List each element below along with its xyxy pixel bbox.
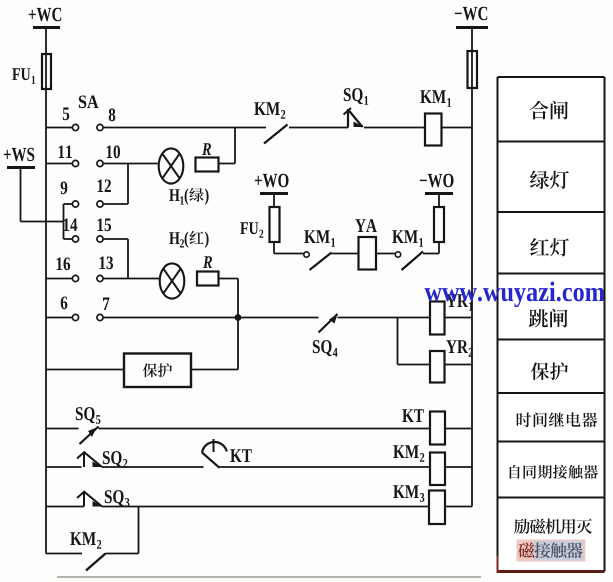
legend row: field suppression line 1: [514, 519, 592, 534]
limit switch SQ5: [76, 407, 101, 444]
time-delay contact KT: [202, 439, 252, 468]
legend row highlight (watermark box): [517, 540, 586, 562]
SA contact 13: [97, 256, 113, 281]
wire protection box to trip row: [191, 369, 238, 371]
wire left bus: [45, 28, 47, 554]
resistor R (green lamp): [196, 143, 219, 171]
wire SQ1 to KM1 coil: [364, 127, 425, 129]
wire bus to SQ3: [46, 506, 84, 508]
legend row: protection: [531, 362, 568, 380]
coil YA: [355, 219, 377, 269]
SA contact 8: [97, 108, 115, 130]
wire bus to protection box: [46, 369, 124, 371]
coil KM1: [420, 90, 451, 145]
legend table frame: [498, 77, 605, 572]
SA contact 5: [63, 108, 79, 131]
SA contact 6: [61, 296, 79, 320]
fuse (right of YA): [434, 194, 444, 254]
wire YR2 coil to right bus: [445, 364, 473, 366]
SA contact 5-8 wire stub: [46, 127, 73, 129]
coil YR1: [430, 294, 473, 334]
SA contact 11-10 wire stub: [46, 163, 73, 165]
contact KM1 (left, NO): [304, 230, 335, 270]
coil KT: [402, 409, 445, 444]
wire branch to YR2: [398, 318, 431, 365]
coil YR2: [430, 340, 473, 382]
power label +WC: [29, 8, 61, 28]
SA contact 6-7 wire stub: [46, 317, 73, 319]
SA contact 7: [97, 298, 110, 321]
wire +WS to SA bracket: [21, 166, 64, 222]
coil KM3: [393, 485, 445, 524]
wire bus to SQ5: [46, 428, 79, 430]
wire KM1 contact to coil YA: [332, 253, 359, 255]
SA contact 12: [97, 179, 111, 207]
fuse FU2: [240, 194, 279, 254]
wire row 8 to KM2 contact: [103, 127, 266, 129]
legend row: trip: [529, 309, 568, 328]
wire FU2 to KM1 contact: [274, 253, 304, 255]
switch SA label: [79, 95, 86, 108]
wire KM1 contact to fuse (right): [423, 253, 439, 255]
legend row: field suppression line 2: [518, 542, 582, 558]
power label -WO: [420, 174, 454, 194]
SA contact 16: [57, 257, 79, 281]
limit switch SQ3: [77, 490, 129, 507]
power label +WO: [255, 174, 289, 194]
wire YR1 coil to right bus: [445, 317, 473, 319]
legend red bottom border: [498, 556, 605, 573]
SA contact 15: [97, 218, 111, 242]
legend row: closing: [530, 101, 568, 120]
resistor R (red lamp): [197, 256, 219, 285]
contact KM2 (NO): [254, 102, 287, 143]
SA contact 16-13 wire stub: [46, 278, 73, 280]
wire SA bracket 9-14: [64, 204, 73, 239]
wire SQ2 to KT contact: [102, 466, 204, 468]
legend row: time relay: [517, 412, 597, 427]
legend row: green lamp: [530, 171, 569, 190]
limit switch SQ1: [344, 88, 369, 127]
power label +WS: [4, 148, 35, 168]
wire SQ5 to KT coil: [99, 428, 431, 430]
wire R to row 8: [219, 128, 236, 164]
SA contact 10: [97, 145, 120, 166]
wire KT coil to right bus: [445, 428, 472, 430]
coil KM2: [393, 445, 445, 485]
wire contact 15 to red lamp row: [103, 239, 128, 279]
wire KM1 coil to right bus: [442, 127, 473, 129]
lamp H1 (green): [159, 148, 209, 204]
wire right bus: [471, 28, 473, 507]
wire SQ3 to KM3 coil: [102, 506, 429, 508]
wire SQ4 to YR1 coil: [338, 317, 431, 319]
SA contact 9: [61, 181, 79, 207]
fuse FU1: [12, 54, 51, 89]
scan artifact line (bottom): [57, 576, 481, 578]
wire R to trip row: [219, 279, 239, 370]
SA contact 11: [59, 145, 79, 166]
contact KM2 (bottom, NO): [70, 532, 105, 570]
protection box: [124, 354, 191, 388]
power label -WC: [455, 7, 488, 28]
lamp H2 (red): [160, 231, 209, 299]
wire contact 13 to lamp H2: [103, 278, 160, 280]
legend row: red lamp: [530, 238, 569, 256]
watermark www.wuyazi.com: [425, 282, 605, 307]
wire YA to KM1 contact (right): [376, 253, 396, 255]
wire row 7 to SQ4: [103, 317, 318, 319]
wire bottom branch: [46, 553, 82, 555]
SA contact 14: [64, 218, 79, 242]
legend row: self-synchronizing contactor: [510, 465, 598, 479]
limit switch SQ2: [77, 451, 127, 468]
contact KM1 (right, NO): [392, 230, 423, 270]
wire KM2 to SQ1: [289, 127, 348, 129]
junction node (trip row): [235, 314, 242, 321]
wire KM2 contact to KM3 row: [106, 507, 139, 554]
wire bus to SQ2: [46, 466, 82, 468]
wire contact 12 to lamp row: [103, 164, 128, 205]
fuse FU2 (right bus): [468, 51, 478, 88]
wire KM2 coil to right bus: [445, 466, 472, 468]
wire KM3 coil to right bus: [445, 506, 472, 508]
wire contact 10 to lamp H1: [103, 163, 159, 165]
wire KT contact to KM2 coil: [220, 466, 431, 468]
limit switch SQ4: [313, 314, 338, 357]
